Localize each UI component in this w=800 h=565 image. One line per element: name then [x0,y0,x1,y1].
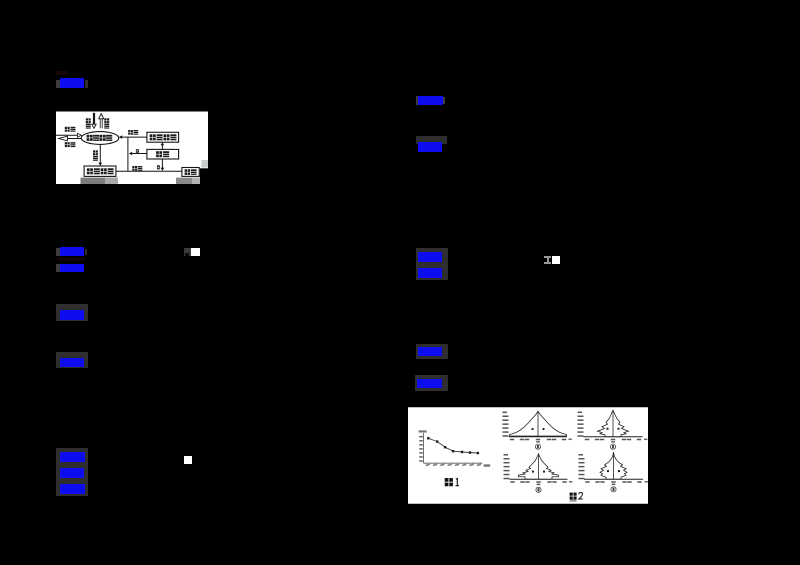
box: drainage system [147,132,179,142]
fig2 caption [570,493,583,500]
L3 leading dark bar [56,264,60,271]
box: product [182,168,199,177]
pyramid center axis [537,411,539,437]
label: precipitation (vertical) [86,118,91,123]
R2 blue text [418,142,442,153]
fig1 y-axis unit label [419,430,427,432]
arrow ellipse down to supply system [99,144,101,163]
selection handle gray square right edge [201,160,208,168]
R4 blue text [418,268,442,278]
M1 dark glyph [184,248,191,256]
pyramid base axis [584,478,643,480]
M2 gray glyph top bar [544,256,551,258]
L5 gray highlight bar [56,352,88,368]
box: waste water [147,149,179,159]
pyramid x tick labels [585,439,589,441]
fig1 y axis [423,433,425,463]
pyramid outline [510,411,567,436]
ellipse node: in-area water body [81,132,119,145]
fig1 data point markers [427,437,429,439]
L1 dark red residue [56,71,68,76]
L8 blue text [60,484,85,494]
line supply system to product [116,170,182,172]
fig1 y tick labels [419,436,423,438]
L1 trailing colon mark [85,80,88,88]
pyramid age labels [503,412,508,414]
pyramid base axis [584,436,643,438]
fig1 x axis [424,462,483,464]
L5 blue text [60,358,84,367]
label: utilize [132,166,137,171]
pyramid age labels [579,454,584,456]
R5 gray highlight bar [416,344,449,360]
fig1 data line [428,438,478,453]
L2 trailing mark [85,249,88,255]
L7 blue text [60,468,84,478]
male/female marks [532,428,534,430]
fig1 caption [445,478,459,486]
right demography figure [408,407,648,504]
M2 gray glyph stem [547,258,550,262]
L4 blue text [60,310,84,320]
box: water supply system [84,166,116,176]
R1 blue highlight [418,96,443,105]
inflow line with arrowhead [56,134,79,136]
L6-8 gray highlight block [56,448,88,496]
pyramid base axis [510,478,568,480]
label: inflow water [65,127,70,132]
R1 leading dark bar [416,96,418,105]
circled number [611,487,616,492]
figure 1+2 white background [408,407,648,504]
label: water diversion (vertical) [93,150,98,155]
male/female marks [532,471,534,473]
M2 white square [552,256,561,264]
R3R4 gray highlight block [416,248,448,280]
L3 blue highlight [60,264,84,273]
R6 gray highlight bar [415,375,448,391]
R2 gray highlight bar [416,136,448,144]
L1 leading dark bar [56,80,60,88]
L6 blue text [60,452,85,462]
pyramid outline [600,452,627,479]
arrow a from waste water to return line [131,153,147,155]
M1 glyph black notch [185,253,188,256]
arrow waste-water up to drainage system [161,144,163,149]
pyramid x tick labels [510,439,514,441]
pyramid age labels [578,412,583,414]
gray shadow bar under water-supply box [81,178,119,184]
line from drainage-system to ellipse with arrowhead [121,136,147,138]
water-system figure white background [56,112,208,169]
L4 gray highlight bar [56,304,88,321]
pyramid outline [598,410,629,437]
M3 white square [184,456,192,464]
pyramid center axis [538,454,540,480]
pyramid x tick labels [585,481,589,483]
pyramid outline [519,454,559,480]
pyramid base axis [509,436,567,438]
gray shadow bar under product box [176,178,200,184]
circled number [536,487,541,492]
circled number [535,444,540,449]
vertical return line [127,137,129,171]
R1 trailing dark bar [443,97,446,104]
precipitation down arrow [93,113,95,125]
pyramid x tick labels [510,481,514,483]
male/female marks [607,428,609,430]
fig1 x tick labels (years) [426,464,431,466]
line waste water down to product line [161,159,163,169]
M1 white square [191,248,200,256]
evaporation hollow up arrow [100,119,102,129]
pyramid age labels [504,454,509,456]
label: evaporation (vertical) [104,118,109,123]
R6 blue text [417,379,442,389]
L2 blue highlight [60,247,84,256]
male/female marks [607,470,609,472]
L2-L3 dark residue band [57,257,85,261]
outflow line with hollow arrowhead [67,138,82,140]
pyramid center axis [612,410,614,437]
label: outflow water [65,142,70,147]
fig1 axis unit label (year) [484,464,491,466]
R3 blue text [418,252,442,262]
pyramid center axis [613,452,615,479]
R5 blue text [418,347,442,356]
circled number [610,444,615,449]
M2 gray glyph bottom bar [544,262,551,264]
left water-system flow diagram [56,111,208,184]
label: discharge-into [128,130,133,135]
L1 blue highlight [60,78,85,89]
L2 leading dark bar [56,248,60,256]
